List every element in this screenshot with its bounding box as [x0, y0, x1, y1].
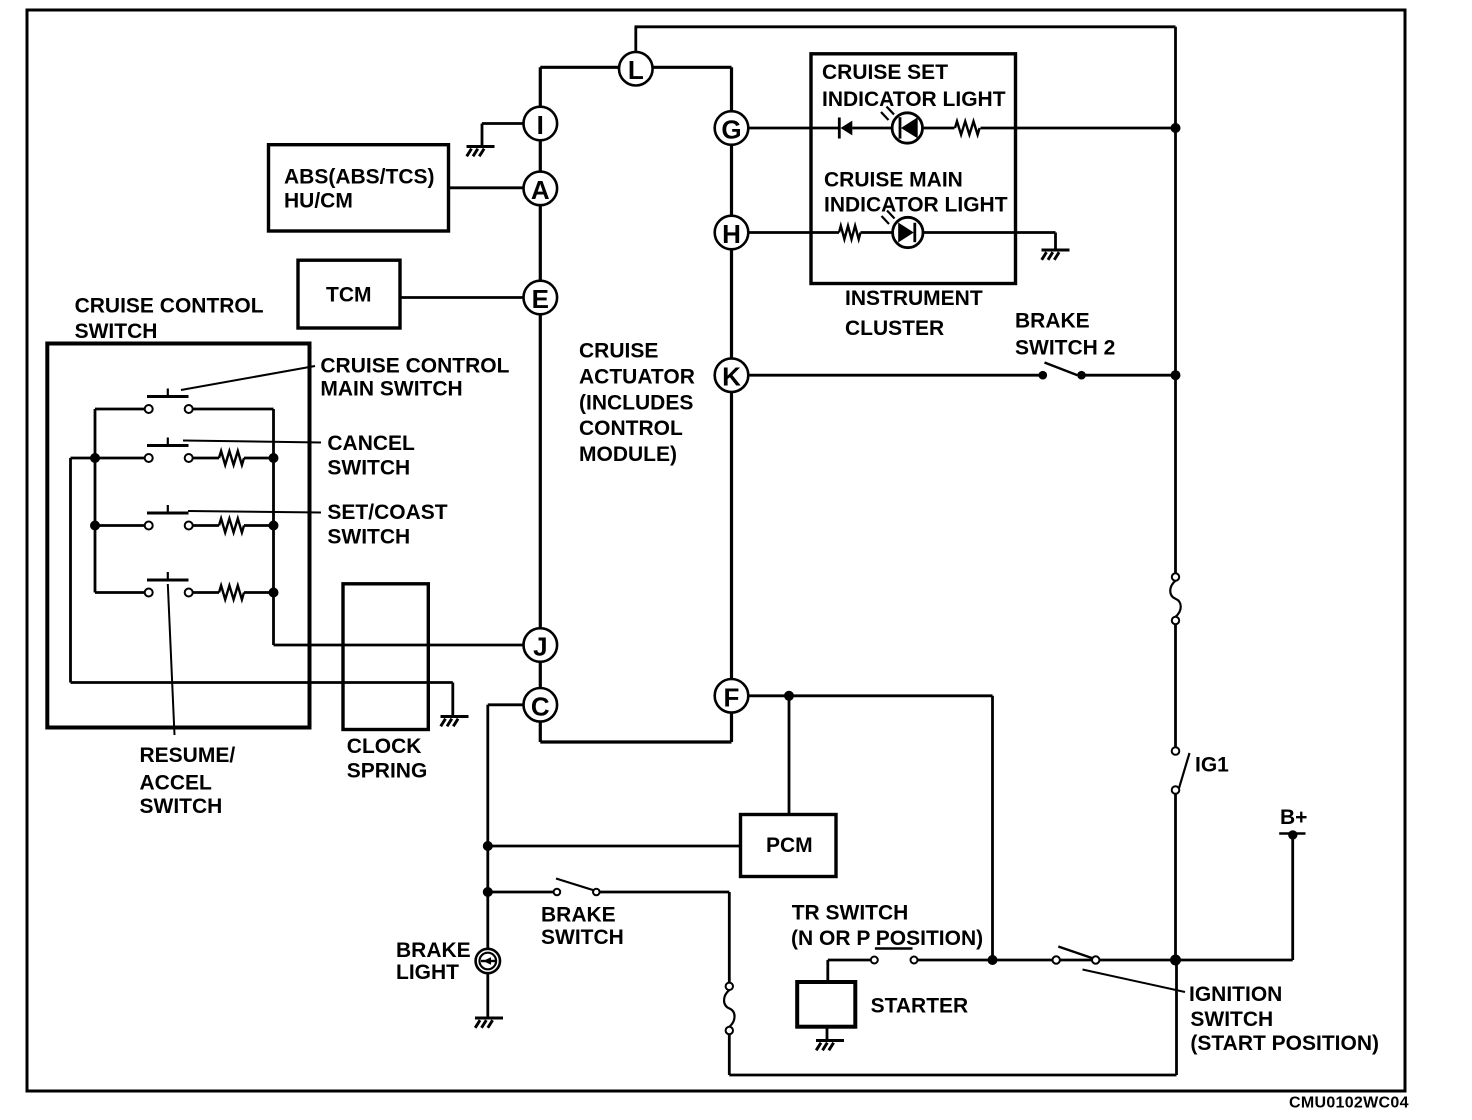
- svg-text:MAIN SWITCH: MAIN SWITCH: [320, 378, 462, 401]
- svg-text:SWITCH: SWITCH: [327, 526, 410, 549]
- svg-text:ABS(ABS/TCS): ABS(ABS/TCS): [284, 166, 435, 189]
- svg-text:SPRING: SPRING: [347, 760, 428, 783]
- svg-text:I: I: [537, 110, 544, 140]
- svg-text:IGNITION: IGNITION: [1189, 983, 1282, 1006]
- svg-text:(N OR P POSITION): (N OR P POSITION): [791, 927, 983, 950]
- svg-text:PCM: PCM: [766, 834, 813, 857]
- svg-text:SWITCH: SWITCH: [140, 795, 223, 818]
- svg-text:TR SWITCH: TR SWITCH: [792, 902, 909, 925]
- svg-text:(INCLUDES: (INCLUDES: [579, 391, 693, 414]
- svg-text:CRUISE CONTROL: CRUISE CONTROL: [320, 355, 509, 378]
- svg-text:SET/COAST: SET/COAST: [327, 501, 447, 524]
- svg-text:CMU0102WC04: CMU0102WC04: [1289, 1095, 1409, 1112]
- svg-text:J: J: [533, 632, 547, 662]
- svg-text:SWITCH 2: SWITCH 2: [1015, 337, 1115, 360]
- svg-text:L: L: [628, 55, 644, 85]
- svg-text:CRUISE CONTROL: CRUISE CONTROL: [75, 295, 264, 318]
- svg-text:G: G: [721, 115, 741, 145]
- svg-text:SWITCH: SWITCH: [1190, 1008, 1273, 1031]
- svg-text:CLUSTER: CLUSTER: [845, 317, 944, 340]
- svg-text:CANCEL: CANCEL: [327, 432, 415, 455]
- svg-text:RESUME/: RESUME/: [140, 744, 236, 767]
- svg-text:INDICATOR LIGHT: INDICATOR LIGHT: [822, 88, 1006, 111]
- svg-text:E: E: [532, 284, 549, 314]
- svg-text:SWITCH: SWITCH: [327, 456, 410, 479]
- svg-text:CLOCK: CLOCK: [347, 735, 422, 758]
- svg-text:HU/CM: HU/CM: [284, 190, 353, 213]
- svg-text:LIGHT: LIGHT: [396, 961, 459, 984]
- svg-text:B+: B+: [1280, 806, 1307, 829]
- svg-text:H: H: [722, 219, 741, 249]
- svg-text:ACTUATOR: ACTUATOR: [579, 366, 695, 389]
- svg-text:IG1: IG1: [1195, 754, 1229, 777]
- svg-text:SWITCH: SWITCH: [75, 320, 158, 343]
- svg-text:INSTRUMENT: INSTRUMENT: [845, 287, 983, 310]
- svg-text:ACCEL: ACCEL: [140, 772, 213, 795]
- svg-text:MODULE): MODULE): [579, 443, 677, 466]
- svg-text:(START POSITION): (START POSITION): [1190, 1032, 1379, 1055]
- svg-text:A: A: [531, 175, 550, 205]
- svg-text:K: K: [722, 362, 741, 392]
- svg-text:STARTER: STARTER: [871, 995, 969, 1018]
- svg-text:CONTROL: CONTROL: [579, 417, 683, 440]
- svg-text:SWITCH: SWITCH: [541, 926, 624, 949]
- svg-text:C: C: [531, 691, 550, 721]
- svg-text:TCM: TCM: [326, 284, 372, 307]
- svg-text:CRUISE SET: CRUISE SET: [822, 61, 948, 84]
- svg-text:CRUISE MAIN: CRUISE MAIN: [824, 169, 963, 192]
- svg-text:BRAKE: BRAKE: [1015, 310, 1090, 333]
- svg-text:BRAKE: BRAKE: [396, 939, 471, 962]
- svg-text:CRUISE: CRUISE: [579, 340, 658, 363]
- svg-text:INDICATOR LIGHT: INDICATOR LIGHT: [824, 194, 1008, 217]
- svg-text:F: F: [724, 682, 740, 712]
- svg-text:BRAKE: BRAKE: [541, 904, 616, 927]
